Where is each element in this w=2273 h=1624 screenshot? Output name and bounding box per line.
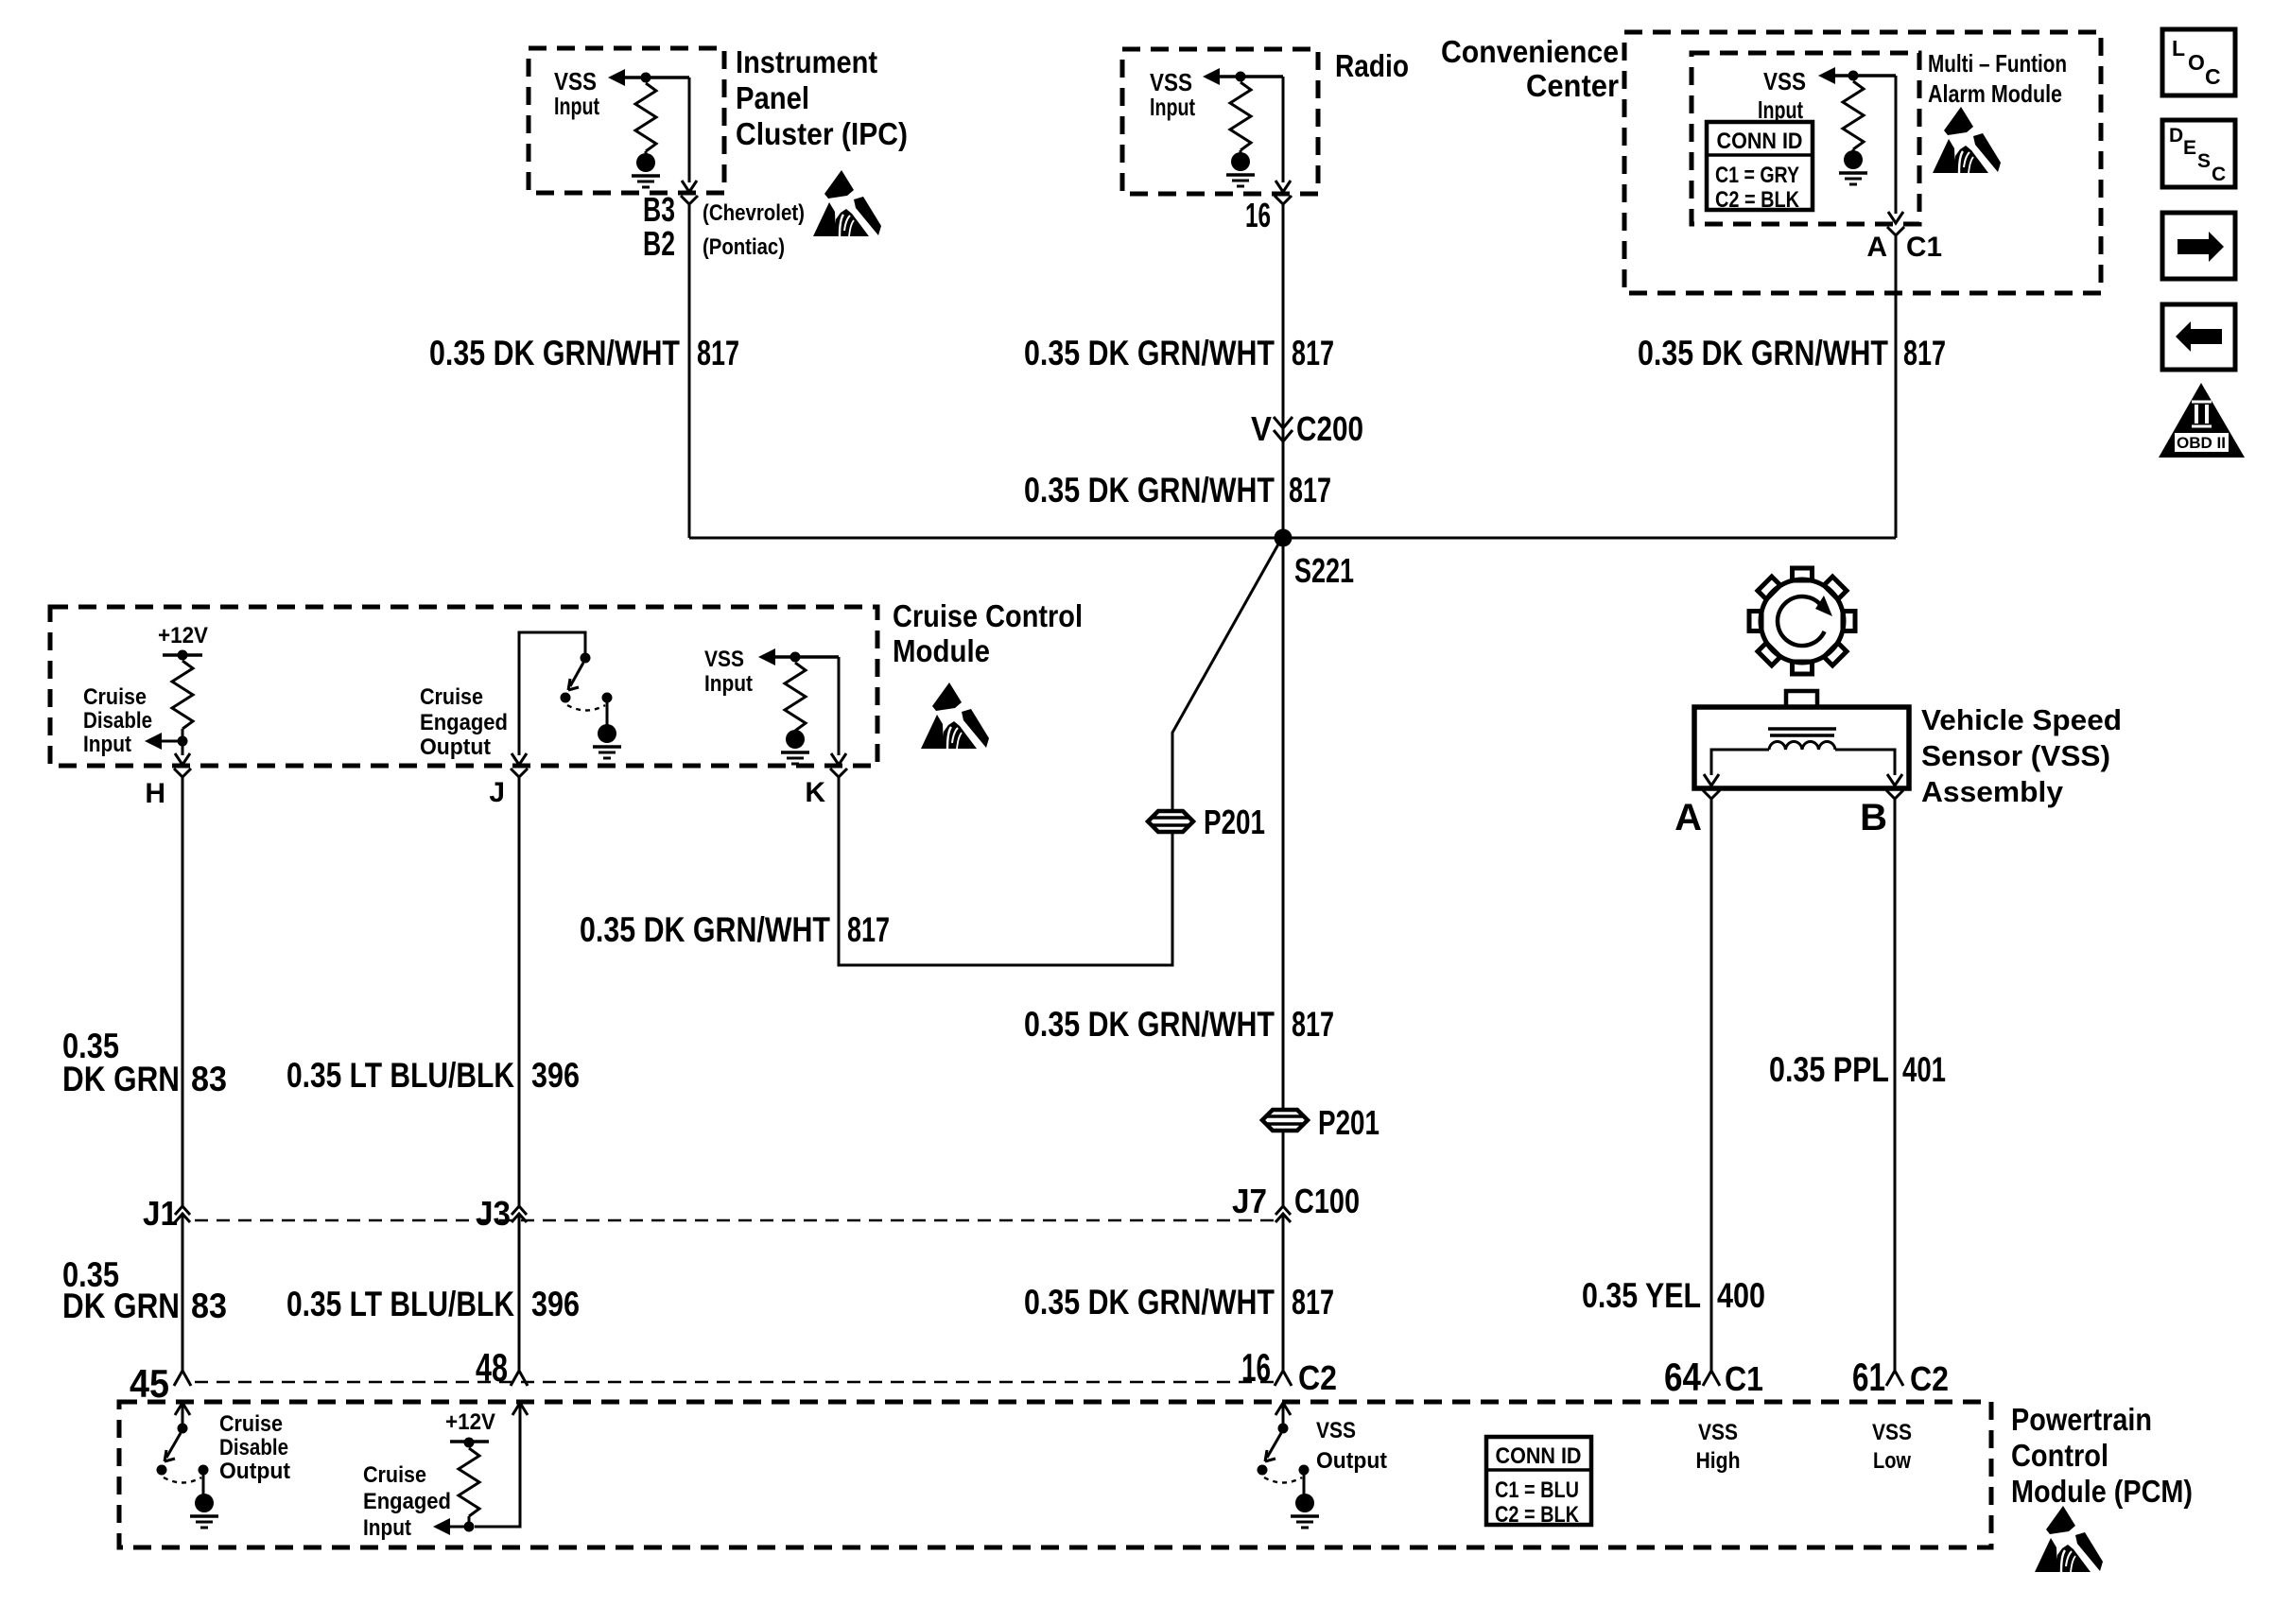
ground cruise disable switch: [202, 1475, 205, 1494]
svg-text:CONN ID: CONN ID: [1496, 1443, 1582, 1469]
switch lever with arrowhead: [166, 1433, 181, 1458]
svg-text:Input: Input: [704, 671, 753, 697]
svg-text:O: O: [2188, 50, 2205, 75]
connector C100 at J7: [1275, 1206, 1291, 1222]
wire alarm arrow to corner: [1835, 74, 1896, 78]
ground alarm: [1852, 149, 1855, 152]
switch contact left: [157, 1465, 167, 1476]
svg-text:DK GRN: DK GRN: [62, 1060, 180, 1098]
svg-text:J3: J3: [476, 1194, 511, 1233]
switch cruise engaged: pivot contact: [581, 653, 591, 664]
svg-text:401: 401: [1902, 1050, 1946, 1089]
svg-text:0.35 LT BLU/BLK: 0.35 LT BLU/BLK: [286, 1285, 514, 1323]
switch cruise disable: pivot contact: [178, 1424, 188, 1434]
svg-text:K: K: [805, 777, 825, 808]
svg-text:J1: J1: [143, 1194, 178, 1233]
svg-text:Module (PCM): Module (PCM): [2011, 1474, 2193, 1509]
pin K connector: [830, 769, 847, 788]
switch contact right: [1299, 1465, 1310, 1476]
pin 16 terminal: [1275, 1371, 1292, 1386]
svg-text:C: C: [2205, 64, 2221, 89]
svg-text:Assembly: Assembly: [1921, 775, 2064, 808]
svg-text:817: 817: [1292, 1005, 1334, 1044]
svg-text:Disable: Disable: [219, 1435, 288, 1460]
arrow VSS pin B: [1887, 774, 1902, 786]
sidebar DESC box: [2162, 120, 2235, 187]
arrow pin K exit: [831, 753, 846, 765]
svg-text:Input: Input: [554, 92, 599, 120]
wire alarm internal down: [1895, 76, 1898, 214]
VSS core lines: [1768, 727, 1836, 731]
pin H connector: [174, 769, 191, 788]
svg-text:817: 817: [1292, 334, 1334, 372]
svg-text:VSS: VSS: [704, 647, 744, 672]
ground cruise engaged switch: [606, 702, 609, 725]
svg-text:C2 = BLK: C2 = BLK: [1715, 187, 1800, 213]
svg-text:H: H: [145, 778, 165, 809]
wire 396 below C100: [518, 1214, 521, 1372]
pin A C1 connector: [1887, 227, 1904, 247]
svg-text:OBD II: OBD II: [2177, 434, 2226, 452]
svg-text:+12V: +12V: [445, 1409, 495, 1435]
svg-text:VSS: VSS: [1698, 1420, 1738, 1445]
ESD symbol PCM: [2035, 1506, 2103, 1572]
ground radio: [1240, 150, 1242, 154]
svg-text:0.35 DK GRN/WHT: 0.35 DK GRN/WHT: [1024, 471, 1275, 510]
radio box: [1122, 49, 1318, 194]
wire 83 pin H down: [182, 788, 184, 1206]
node cruise vss junction: [790, 652, 801, 663]
svg-text:16: 16: [1245, 196, 1271, 234]
alarm VSS input arrow: [1818, 67, 1835, 84]
wire 396 pin J down: [518, 788, 521, 1206]
OBD II symbol: [2159, 383, 2245, 458]
wire 817 from pin K to P201 and S221: [839, 543, 1279, 965]
svg-text:High: High: [1696, 1448, 1741, 1474]
svg-text:64: 64: [1664, 1355, 1702, 1399]
arrow pin 16 into PCM: [1275, 1403, 1291, 1415]
wire cruise engaged output: [519, 632, 585, 755]
node alarm junction: [1848, 71, 1859, 81]
svg-text:V: V: [1251, 409, 1272, 448]
arrow VSS pin A: [1704, 774, 1719, 786]
svg-text:C200: C200: [1296, 409, 1363, 448]
svg-text:C1: C1: [1906, 232, 1942, 263]
resistor radio pull-up: [1230, 82, 1251, 150]
svg-text:396: 396: [531, 1285, 580, 1323]
svg-text:L: L: [2172, 36, 2185, 60]
svg-text:817: 817: [1289, 471, 1331, 510]
svg-text:Cluster (IPC): Cluster (IPC): [736, 116, 908, 151]
cruise VSS input arrow: [758, 648, 775, 665]
pin 61 terminal: [1886, 1371, 1903, 1386]
svg-text:Cruise: Cruise: [83, 684, 147, 710]
svg-text:A: A: [1674, 797, 1702, 838]
wire pin 45 to switch: [182, 1403, 184, 1424]
connector C100 line: [195, 1219, 1275, 1222]
svg-text:Low: Low: [1873, 1448, 1911, 1474]
svg-text:400: 400: [1717, 1276, 1765, 1315]
pin 45 terminal: [174, 1371, 191, 1386]
wire 817 from IPC down: [688, 213, 691, 538]
connector C100 at J1: [175, 1206, 190, 1222]
svg-text:0.35 PPL: 0.35 PPL: [1769, 1050, 1889, 1089]
svg-text:VSS: VSS: [1763, 67, 1806, 95]
svg-text:S221: S221: [1294, 551, 1354, 590]
switch contact left: [1258, 1465, 1268, 1476]
svg-text:+12V: +12V: [158, 623, 208, 648]
svg-text:C2: C2: [1298, 1358, 1337, 1397]
node +12V junction: [178, 650, 188, 661]
instrument panel cluster IPC box: [529, 48, 724, 193]
svg-text:C2 = BLK: C2 = BLK: [1495, 1502, 1580, 1528]
svg-text:Center: Center: [1526, 68, 1619, 103]
svg-text:0.35 DK GRN/WHT: 0.35 DK GRN/WHT: [429, 334, 680, 372]
node cruise engaged junction: [464, 1522, 475, 1532]
switch contact right: [602, 693, 613, 703]
ESD symbol alarm module: [1933, 107, 2001, 173]
svg-text:C: C: [2212, 164, 2226, 185]
svg-text:Input: Input: [363, 1515, 411, 1541]
svg-text:Cruise: Cruise: [363, 1462, 426, 1488]
switch lever with arrowhead: [570, 663, 583, 686]
resistor cruise disable: [172, 661, 193, 729]
svg-text:P201: P201: [1318, 1103, 1379, 1142]
svg-text:B3: B3: [643, 190, 675, 229]
svg-text:(Pontiac): (Pontiac): [703, 234, 785, 260]
svg-text:Instrument: Instrument: [736, 44, 877, 79]
node radio junction: [1236, 72, 1246, 82]
wire IPC internal down: [688, 78, 691, 182]
svg-text:0.35 DK GRN/WHT: 0.35 DK GRN/WHT: [1024, 334, 1275, 372]
IPC VSS input arrow: [608, 69, 625, 86]
svg-text:C2: C2: [1910, 1359, 1949, 1398]
wire cruise vss arrow to corner: [775, 655, 839, 659]
svg-text:C1: C1: [1725, 1359, 1763, 1398]
svg-text:B2: B2: [643, 224, 675, 263]
svg-text:Convenience: Convenience: [1441, 34, 1619, 69]
wire 400 VSS A down: [1710, 810, 1713, 1372]
switch dashed throw arc: [567, 705, 605, 711]
svg-text:(Chevrolet): (Chevrolet): [703, 200, 805, 226]
svg-text:0.35 DK GRN/WHT: 0.35 DK GRN/WHT: [1638, 334, 1888, 372]
sidebar back arrow box: [2162, 304, 2235, 370]
CONN ID table alarm: [1707, 122, 1813, 213]
svg-text:D: D: [2169, 125, 2183, 147]
powertrain control module PCM box: [119, 1402, 1991, 1547]
svg-text:Output: Output: [1316, 1448, 1387, 1474]
svg-text:C1 = GRY: C1 = GRY: [1715, 163, 1799, 188]
svg-text:61: 61: [1852, 1355, 1885, 1399]
radio VSS input arrow: [1203, 68, 1220, 85]
node IPC junction: [641, 73, 651, 83]
pin B3/B2 connector: [681, 196, 698, 216]
svg-text:C1 = BLU: C1 = BLU: [1495, 1477, 1579, 1503]
pin 16 connector: [1275, 196, 1292, 216]
arrow pin J exit: [512, 753, 527, 765]
svg-text:VSS: VSS: [1872, 1420, 1912, 1445]
svg-text:Engaged: Engaged: [363, 1489, 451, 1514]
ground cruise vss: [781, 730, 809, 764]
CONN ID table PCM: [1486, 1437, 1591, 1528]
svg-text:817: 817: [697, 334, 739, 372]
wire pin 16 to switch: [1282, 1403, 1285, 1424]
arrow alarm pin exit: [1888, 212, 1903, 223]
svg-text:Disable: Disable: [83, 708, 152, 734]
wire 817 from alarm module down: [1895, 247, 1898, 538]
VSS mounting stub: [1786, 691, 1817, 707]
ESD symbol cruise module: [921, 682, 989, 749]
arrow pin 45 into PCM: [175, 1403, 190, 1415]
wire radio arrow to corner: [1220, 75, 1283, 78]
svg-text:83: 83: [191, 1287, 227, 1325]
connector C100 at J3: [512, 1206, 527, 1222]
svg-text:P201: P201: [1204, 803, 1265, 841]
svg-text:B: B: [1860, 797, 1887, 838]
svg-text:Powertrain: Powertrain: [2011, 1402, 2152, 1437]
pin 64 terminal: [1703, 1371, 1720, 1386]
svg-text:45: 45: [130, 1361, 169, 1406]
node cruise disable junction: [178, 736, 188, 747]
ground VSS output switch: [1303, 1475, 1306, 1494]
svg-text:J: J: [489, 777, 505, 808]
svg-text:Sensor (VSS): Sensor (VSS): [1921, 739, 2110, 772]
wire cruise vss down to pin K: [838, 657, 841, 755]
inductor VSS coil: [1769, 742, 1835, 750]
svg-text:0.35 DK GRN/WHT: 0.35 DK GRN/WHT: [1024, 1283, 1275, 1322]
inline connector P201 lower: [1262, 1110, 1308, 1131]
arrow radio pin exit: [1275, 181, 1291, 192]
wire 83 below C100: [182, 1214, 184, 1372]
svg-text:C100: C100: [1294, 1182, 1360, 1220]
svg-text:817: 817: [1292, 1283, 1334, 1322]
pin J connector: [511, 769, 528, 788]
resistor cruise engaged: [459, 1448, 479, 1516]
ground IPC: [645, 151, 648, 156]
svg-text:Cruise Control: Cruise Control: [893, 598, 1083, 633]
switch lever with arrowhead: [1267, 1433, 1281, 1458]
svg-text:J7: J7: [1232, 1182, 1267, 1220]
sidebar LOC box: [2162, 29, 2235, 95]
wire cruise disable to pin H: [182, 746, 184, 755]
svg-text:Alarm Module: Alarm Module: [1928, 79, 2062, 108]
vehicle speed sensor VSS assembly box: [1694, 707, 1909, 788]
svg-text:Input: Input: [1150, 93, 1195, 121]
svg-text:0.35 YEL: 0.35 YEL: [1582, 1276, 1701, 1315]
cruise engaged input arrow: [433, 1518, 450, 1535]
svg-text:0.35 DK GRN/WHT: 0.35 DK GRN/WHT: [1024, 1005, 1275, 1044]
convenience center box: [1624, 32, 2101, 293]
svg-text:16: 16: [1241, 1345, 1271, 1390]
svg-text:Panel: Panel: [736, 80, 809, 115]
svg-text:A: A: [1866, 232, 1887, 263]
switch dashed throw arc: [164, 1477, 201, 1483]
wire pin 48 to resistor: [475, 1403, 520, 1527]
pin A connector: [1703, 790, 1720, 810]
switch contact right: [199, 1465, 209, 1476]
svg-text:VSS: VSS: [1316, 1418, 1356, 1443]
svg-text:396: 396: [531, 1056, 580, 1095]
inline connector P201 upper: [1148, 811, 1193, 832]
switch contact left: [561, 693, 571, 703]
switch dashed throw arc: [1264, 1477, 1302, 1483]
svg-text:S: S: [2197, 150, 2211, 172]
svg-text:0.35 LT BLU/BLK: 0.35 LT BLU/BLK: [286, 1056, 514, 1095]
svg-text:Engaged: Engaged: [420, 710, 508, 735]
pin B connector: [1886, 790, 1903, 810]
wire radio internal down: [1282, 77, 1285, 182]
vehicle speed sensor gear: [1749, 568, 1855, 674]
pin 48 terminal: [511, 1371, 528, 1386]
arrow pin 48 into PCM: [512, 1403, 528, 1415]
svg-text:Module: Module: [893, 633, 990, 668]
svg-text:Vehicle Speed: Vehicle Speed: [1921, 703, 2122, 736]
svg-text:0.35 DK GRN/WHT: 0.35 DK GRN/WHT: [580, 910, 830, 949]
svg-text:83: 83: [191, 1060, 227, 1098]
cruise control module box: [50, 607, 877, 766]
arrow IPC pin exit: [682, 181, 697, 192]
svg-text:Ouptut: Ouptut: [420, 734, 491, 760]
svg-text:Radio: Radio: [1335, 48, 1409, 83]
svg-text:Multi – Funtion: Multi – Funtion: [1928, 49, 2067, 78]
svg-text:817: 817: [847, 910, 890, 949]
svg-text:Input: Input: [83, 732, 131, 757]
wire VSS coil right lead: [1835, 750, 1895, 775]
resistor IPC pull-up: [635, 83, 656, 151]
svg-text:Input: Input: [1758, 95, 1803, 124]
svg-text:48: 48: [476, 1345, 508, 1390]
svg-text:DK GRN: DK GRN: [62, 1287, 180, 1325]
multi-function alarm module box: [1692, 53, 1919, 224]
resistor alarm pull-up: [1843, 81, 1864, 149]
cruise disable input arrow: [145, 733, 162, 750]
connector C200 symbol: [1274, 417, 1293, 441]
svg-text:817: 817: [1903, 334, 1946, 372]
node +12V PCM junction: [464, 1438, 475, 1448]
sidebar forward arrow box: [2162, 213, 2235, 279]
node S221 splice: [1275, 529, 1293, 547]
switch VSS output: pivot contact: [1278, 1424, 1289, 1434]
arrow pin H exit: [175, 753, 190, 765]
connector C2 pin line PCM: [195, 1381, 1275, 1384]
wire 817 radio main vertical: [1282, 213, 1285, 1206]
svg-text:CONN ID: CONN ID: [1717, 129, 1803, 154]
wire S221 horizontal bus: [689, 537, 1896, 540]
svg-text:Cruise: Cruise: [420, 684, 483, 710]
svg-text:E: E: [2183, 137, 2196, 159]
wire 401 VSS B down: [1894, 810, 1897, 1372]
resistor cruise vss: [785, 663, 806, 731]
svg-text:Cruise: Cruise: [219, 1411, 283, 1437]
svg-text:Output: Output: [219, 1459, 290, 1484]
wire VSS coil left lead: [1711, 750, 1769, 775]
svg-text:Control: Control: [2011, 1438, 2108, 1473]
wire IPC arrow to corner: [625, 76, 689, 79]
ESD symbol IPC: [813, 170, 881, 236]
